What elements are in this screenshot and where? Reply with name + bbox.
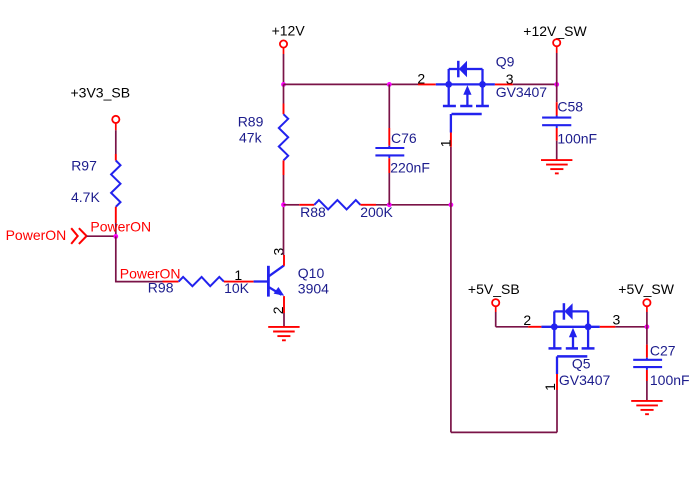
- power port +3V3_SB: [71, 84, 131, 123]
- svg-text:GV3407: GV3407: [559, 372, 611, 388]
- wire +5V_SB to Q5 pin2: [496, 307, 542, 327]
- wire R88 right lead to gate node: [360, 204, 451, 206]
- svg-text:R98: R98: [148, 280, 174, 296]
- wire Q10 collector up to node: [283, 205, 286, 266]
- wire R88 left lead: [284, 204, 315, 206]
- wire Q9 pin3 to +12V_SW node: [495, 83, 557, 85]
- svg-text:+12V: +12V: [272, 23, 306, 39]
- svg-text:4.7K: 4.7K: [71, 189, 100, 205]
- wire R89 bottom lead to node: [283, 160, 285, 204]
- power port +5V_SB: [468, 281, 520, 306]
- junction R88 row left: [281, 202, 286, 207]
- capacitor C76: [375, 130, 430, 176]
- junction C76 top: [387, 82, 392, 87]
- svg-text:+5V_SB: +5V_SB: [468, 281, 520, 297]
- mosfet Q5: [541, 303, 610, 388]
- svg-text:+12V_SW: +12V_SW: [523, 23, 587, 39]
- wire R97 to PowerON node: [115, 207, 117, 237]
- svg-text:1: 1: [234, 267, 242, 283]
- junction +12V rail left: [281, 82, 286, 87]
- wire R89 top lead: [283, 84, 285, 114]
- svg-text:1: 1: [438, 139, 454, 147]
- svg-text:PowerON: PowerON: [90, 219, 151, 235]
- svg-text:+5V_SW: +5V_SW: [618, 281, 674, 297]
- svg-text:C58: C58: [557, 99, 583, 115]
- svg-text:2: 2: [417, 71, 425, 87]
- svg-text:3: 3: [613, 312, 621, 328]
- wire +12V down to rail: [283, 48, 285, 85]
- svg-text:Q10: Q10: [298, 265, 325, 281]
- svg-text:+3V3_SB: +3V3_SB: [71, 84, 131, 100]
- wire gate node up to Q9 gate: [450, 130, 452, 205]
- wire node to C27: [646, 327, 648, 360]
- junction C76 bottom: [387, 202, 392, 207]
- wire C27 to ground: [646, 367, 648, 401]
- power port +12V: [272, 23, 306, 48]
- wire C58 to ground: [556, 125, 558, 160]
- resistor R89: [238, 113, 289, 160]
- wire node to C58: [556, 84, 558, 117]
- junction +12V_SW node: [554, 82, 559, 87]
- wire gate node down to Q5 gate run: [451, 205, 557, 433]
- ground under C27: [631, 401, 662, 414]
- ground under Q10: [268, 327, 299, 340]
- resistor R98: [148, 277, 250, 296]
- svg-text:PowerON: PowerON: [6, 227, 67, 243]
- wire +3V3_SB to R97: [115, 123, 117, 160]
- mosfet Q9: [436, 53, 547, 132]
- svg-text:1: 1: [542, 383, 558, 391]
- off-page connector PowerON: [6, 227, 87, 244]
- wire PowerON port to node: [87, 235, 116, 237]
- power port +5V_SW: [618, 281, 674, 306]
- svg-text:C27: C27: [650, 342, 676, 358]
- resistor R88: [300, 200, 393, 220]
- ground under C58: [541, 160, 572, 173]
- svg-text:100nF: 100nF: [557, 131, 597, 147]
- wire C76 top branch: [388, 84, 390, 148]
- svg-text:3904: 3904: [298, 280, 329, 296]
- wire +12V_SW down to node: [556, 47, 558, 85]
- capacitor C27: [633, 342, 689, 388]
- wire +5V_SW down to node: [646, 307, 648, 327]
- svg-text:100nF: 100nF: [650, 372, 690, 388]
- svg-text:C76: C76: [391, 130, 417, 146]
- junction +5V_SW node: [645, 324, 650, 329]
- svg-text:Q5: Q5: [572, 355, 591, 371]
- svg-text:R88: R88: [300, 204, 326, 220]
- svg-text:2: 2: [523, 312, 531, 328]
- wire Q5 pin3 to +5V_SW node: [600, 326, 647, 328]
- power port +12V_SW: [523, 23, 587, 46]
- wire +12V rail to Q9 pin2: [284, 83, 436, 85]
- wire node down and right to R98: [116, 236, 179, 282]
- resistor R97: [71, 158, 121, 207]
- capacitor C58: [542, 99, 597, 147]
- svg-text:GV3407: GV3407: [496, 84, 548, 100]
- wire R98 to Q10 base: [224, 281, 254, 283]
- wire C76 bottom branch: [388, 155, 390, 204]
- transistor Q10: [254, 265, 330, 297]
- junction PowerON node: [113, 234, 118, 239]
- svg-text:220nF: 220nF: [390, 160, 430, 176]
- svg-text:R97: R97: [71, 158, 97, 174]
- wire Q10 emitter to ground: [283, 296, 285, 327]
- svg-text:47k: 47k: [239, 129, 263, 145]
- junction gate node: [449, 202, 454, 207]
- svg-text:Q9: Q9: [496, 53, 515, 69]
- svg-text:R89: R89: [238, 113, 264, 129]
